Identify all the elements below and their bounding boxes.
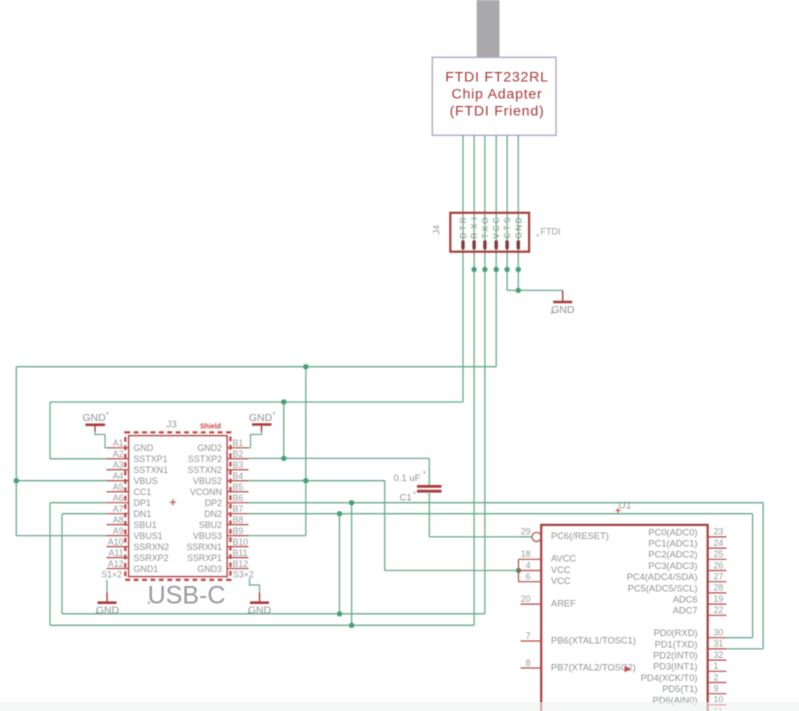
svg-text:B11: B11 bbox=[233, 548, 248, 558]
junction dot TXO net at (339.5,513.7) bbox=[337, 511, 342, 516]
svg-text:A6: A6 bbox=[113, 493, 124, 503]
svg-text:PC6(/RESET): PC6(/RESET) bbox=[551, 531, 609, 541]
svg-text:GND: GND bbox=[96, 604, 120, 616]
U1 pin 4 VCC bbox=[519, 560, 571, 575]
svg-text:PD3(INT1): PD3(INT1) bbox=[653, 662, 697, 672]
svg-text:VCC: VCC bbox=[551, 565, 571, 575]
svg-text:RXI: RXI bbox=[470, 218, 479, 239]
svg-text:A10: A10 bbox=[108, 537, 124, 547]
svg-text:B5: B5 bbox=[233, 482, 244, 492]
U1 origin cursor mark bbox=[625, 666, 632, 672]
svg-text:+: + bbox=[536, 234, 540, 240]
svg-text:SSRXN2: SSRXN2 bbox=[134, 542, 170, 552]
svg-text:7: 7 bbox=[526, 631, 531, 641]
svg-text:+: + bbox=[106, 411, 110, 418]
U1 pin 19 ADC6 bbox=[673, 594, 727, 605]
U1 pin 22 ADC7 bbox=[673, 605, 727, 616]
svg-text:S1×2: S1×2 bbox=[101, 570, 122, 580]
svg-text:PC1(ADC1): PC1(ADC1) bbox=[648, 539, 697, 549]
capacitor C1 0.1 uF bbox=[417, 486, 521, 537]
C1 value label 0.1 uF bbox=[394, 470, 427, 485]
wire GND net: FTDI pin6 down to junction bbox=[517, 135, 519, 290]
svg-text:PD2(INT0): PD2(INT0) bbox=[653, 651, 697, 661]
U1 VCC pin bracket bbox=[518, 559, 520, 581]
svg-text:GND1: GND1 bbox=[134, 564, 159, 574]
U1 pin 24 PC1(ADC1) bbox=[648, 538, 726, 549]
svg-text:PC0(ADC0): PC0(ADC0) bbox=[648, 527, 697, 537]
svg-text:CC1: CC1 bbox=[134, 487, 152, 497]
svg-text:SSRXP2: SSRXP2 bbox=[134, 553, 169, 563]
U1 pin 11 bbox=[708, 706, 727, 711]
U1 pin 10 PD6(AIN0) bbox=[653, 695, 727, 706]
svg-text:U1: U1 bbox=[619, 501, 632, 512]
svg-text:SSRXP1: SSRXP1 bbox=[187, 553, 222, 563]
svg-text:B1: B1 bbox=[233, 438, 244, 448]
USB-C pin B2 (SSTXP2) bbox=[188, 449, 249, 464]
USB-C value label bbox=[147, 582, 226, 610]
svg-text:A11: A11 bbox=[109, 548, 124, 558]
svg-text:24: 24 bbox=[714, 538, 724, 548]
junction dot VBUS net at (305.8,480.7) bbox=[303, 478, 308, 483]
op-amp U1 body (ATmega MCU) bbox=[541, 525, 708, 711]
svg-text:DTR: DTR bbox=[459, 217, 468, 238]
svg-text:+: + bbox=[95, 610, 99, 617]
svg-text:2: 2 bbox=[714, 672, 719, 682]
USB-C origin cross bbox=[170, 499, 176, 505]
svg-text:PC4(ADC4/SDA): PC4(ADC4/SDA) bbox=[627, 572, 698, 582]
svg-text:PD1(TXD): PD1(TXD) bbox=[655, 639, 698, 649]
U1 pin 7 PB6(XTAL1/TOSC1) bbox=[521, 631, 636, 646]
bottom UI band bbox=[0, 702, 799, 711]
svg-text:+: + bbox=[247, 610, 251, 617]
svg-text:C1: C1 bbox=[400, 493, 412, 504]
J4 reference designator bbox=[432, 225, 442, 235]
svg-text:30: 30 bbox=[714, 628, 724, 638]
svg-text:+: + bbox=[413, 490, 417, 497]
svg-text:8: 8 bbox=[526, 658, 531, 668]
svg-text:18: 18 bbox=[521, 549, 531, 559]
USB-C pin A10 (SSRXN2) bbox=[107, 537, 170, 552]
svg-text:A9: A9 bbox=[113, 526, 124, 536]
svg-text:SSTXN1: SSTXN1 bbox=[134, 465, 169, 475]
svg-text:VBUS2: VBUS2 bbox=[193, 476, 222, 486]
U1 pin 31 PD1(TXD) bbox=[655, 639, 727, 650]
svg-text:SSTXP2: SSTXP2 bbox=[188, 454, 222, 464]
junction dot DTR net at (283.8,458.4) bbox=[281, 456, 286, 461]
svg-text:USB-C: USB-C bbox=[148, 582, 226, 610]
USB-C pin B3 (SSTXN2) bbox=[187, 460, 248, 475]
Shield label bbox=[200, 423, 221, 430]
svg-text:28: 28 bbox=[714, 583, 724, 593]
svg-text:ADC7: ADC7 bbox=[673, 606, 698, 616]
svg-text:PD0(RXD): PD0(RXD) bbox=[654, 628, 698, 638]
svg-text:GND: GND bbox=[248, 604, 272, 616]
ground symbol (J4 CTS/GND net) bbox=[550, 290, 575, 317]
ground symbol top-left (A1) bbox=[82, 411, 109, 448]
ground symbol top-right (B1) bbox=[248, 411, 276, 448]
USB-C pin A9 (VBUS1) bbox=[107, 526, 163, 541]
svg-text:FTDI FT232RL: FTDI FT232RL bbox=[445, 70, 549, 86]
ground symbol bottom-left (S1) bbox=[95, 580, 120, 617]
USB-C pin B12 (GND3) bbox=[197, 559, 248, 574]
svg-text:Shield: Shield bbox=[200, 423, 221, 430]
svg-text:S3×2: S3×2 bbox=[233, 570, 254, 580]
wire CTS net: FTDI pin5 down then right to GND symbol bbox=[507, 135, 563, 290]
svg-text:26: 26 bbox=[714, 560, 724, 570]
svg-text:DN2: DN2 bbox=[204, 509, 222, 519]
svg-text:DN1: DN1 bbox=[134, 509, 152, 519]
U1 pin 32 PD2(INT0) bbox=[653, 650, 726, 661]
svg-text:DP2: DP2 bbox=[205, 498, 222, 508]
U1 pin 20 AREF bbox=[521, 594, 577, 609]
wire TXO net: FTDI pin3 down to y=613.8, left to DN1 (A7), branch up to DN2 (B7) row to PD0(RXD) bbox=[62, 135, 753, 638]
svg-text:VBUS1: VBUS1 bbox=[134, 531, 163, 541]
junction dot VBUS net at (305.8,366.7) bbox=[303, 364, 308, 369]
svg-text:VCC: VCC bbox=[551, 576, 571, 586]
USB-C pin B7 (DN2) bbox=[204, 504, 248, 519]
svg-text:6: 6 bbox=[526, 572, 531, 582]
svg-text:PC3(ADC3): PC3(ADC3) bbox=[648, 561, 697, 571]
svg-text:VBUS: VBUS bbox=[134, 476, 158, 486]
U1 pin 23 PC0(ADC0) bbox=[648, 527, 726, 538]
U1 pin 9 PD5(T1) bbox=[662, 684, 726, 695]
junction dot RXI net at (351.6,625.3) bbox=[349, 623, 354, 628]
svg-text:CTS: CTS bbox=[503, 218, 512, 239]
USB-C pin A12 (GND1) bbox=[107, 559, 159, 574]
FTDI value label bbox=[536, 227, 561, 240]
svg-text:GND: GND bbox=[82, 412, 106, 424]
junction dot DTR net at (283.8,402) bbox=[281, 399, 286, 404]
USB-C pin B9 (VBUS3) bbox=[193, 526, 249, 541]
USB-C pin B8 (SBU2) bbox=[199, 515, 249, 530]
svg-text:(FTDI Friend): (FTDI Friend) bbox=[450, 104, 545, 120]
svg-text:B9: B9 bbox=[233, 526, 244, 536]
svg-text:22: 22 bbox=[714, 605, 724, 615]
svg-text:VCONN: VCONN bbox=[190, 487, 222, 497]
svg-text:SBU2: SBU2 bbox=[199, 520, 222, 530]
svg-text:GND2: GND2 bbox=[197, 443, 222, 453]
junction dot GND net at (518.3,290.4) bbox=[516, 288, 521, 293]
svg-text:ADC6: ADC6 bbox=[673, 595, 698, 605]
svg-text:+: + bbox=[423, 470, 427, 477]
svg-text:DP1: DP1 bbox=[134, 498, 151, 508]
USB-C pin B4 (VBUS2) bbox=[193, 471, 249, 486]
svg-text:B10: B10 bbox=[233, 537, 249, 547]
wire VBUS net: FTDI VCC pin4 down, left along y=366.7 to A4/A9, branch to B4/B9 and U1 VCC bbox=[16, 135, 519, 570]
U1 pin 26 PC3(ADC3) bbox=[648, 560, 726, 571]
svg-text:SSTXN2: SSTXN2 bbox=[187, 465, 222, 475]
svg-text:J4: J4 bbox=[432, 225, 442, 235]
svg-text:TXO: TXO bbox=[481, 218, 490, 239]
USB-C pin B1 (GND2) bbox=[197, 438, 248, 453]
USB-C pin A3 (SSTXN1) bbox=[107, 460, 169, 475]
junction dot RXI net at (351.6,502.7) bbox=[349, 500, 354, 505]
svg-text:B4: B4 bbox=[233, 471, 244, 481]
svg-text:32: 32 bbox=[714, 650, 724, 660]
svg-text:A12: A12 bbox=[108, 559, 124, 569]
svg-text:23: 23 bbox=[714, 527, 724, 537]
U1 pin 6 VCC bbox=[519, 572, 571, 587]
svg-text:A4: A4 bbox=[113, 471, 124, 481]
svg-text:A8: A8 bbox=[113, 515, 124, 525]
svg-text:PD4(XCK/T0): PD4(XCK/T0) bbox=[641, 673, 698, 683]
svg-text:Chip Adapter: Chip Adapter bbox=[451, 87, 542, 103]
svg-text:PC5(ADC5/SCL): PC5(ADC5/SCL) bbox=[628, 583, 698, 593]
svg-text:PB7(XTAL2/TOSC2): PB7(XTAL2/TOSC2) bbox=[551, 662, 636, 672]
svg-text:A2: A2 bbox=[113, 449, 124, 459]
svg-text:SBU1: SBU1 bbox=[134, 520, 157, 530]
svg-text:AVCC: AVCC bbox=[551, 554, 576, 564]
svg-text:4: 4 bbox=[526, 560, 531, 570]
svg-text:AREF: AREF bbox=[551, 598, 576, 608]
USB-C pin A8 (SBU1) bbox=[107, 515, 157, 530]
C1 reference label bbox=[400, 490, 417, 504]
wire RXI net: FTDI pin2 down to y=625.3, left to DP1 (A6), branch up to DP2 (B6) row to PD1(TXD) bbox=[50, 135, 763, 649]
U1 pin 18 AVCC bbox=[519, 549, 577, 564]
USB-C pin A7 (DN1) bbox=[107, 504, 152, 519]
svg-text:B2: B2 bbox=[233, 449, 244, 459]
svg-text:SSRXN1: SSRXN1 bbox=[186, 542, 222, 552]
svg-text:A5: A5 bbox=[113, 482, 124, 492]
USB-C shield pin S3x2 bbox=[233, 570, 254, 580]
svg-text:A3: A3 bbox=[113, 460, 124, 470]
svg-text:20: 20 bbox=[521, 594, 531, 604]
svg-text:GND: GND bbox=[551, 304, 575, 316]
svg-text:29: 29 bbox=[521, 527, 531, 537]
USB-C pin A11 (SSRXP2) bbox=[107, 548, 169, 563]
svg-text:+: + bbox=[550, 310, 554, 317]
svg-text:B12: B12 bbox=[233, 559, 249, 569]
svg-text:FTDI: FTDI bbox=[541, 227, 561, 237]
U1 pin 25 PC2(ADC2) bbox=[648, 549, 726, 560]
svg-text:SSTXP1: SSTXP1 bbox=[134, 454, 168, 464]
U1 pin 27 PC4(ADC4/SDA) bbox=[627, 572, 727, 583]
svg-text:31: 31 bbox=[714, 639, 724, 649]
svg-text:VCC: VCC bbox=[492, 217, 501, 238]
J3 reference designator bbox=[166, 419, 177, 430]
U1 pin 2 PD4(XCK/T0) bbox=[641, 672, 727, 683]
svg-text:GND: GND bbox=[249, 412, 273, 424]
svg-text:PC2(ADC2): PC2(ADC2) bbox=[648, 550, 697, 560]
svg-text:9: 9 bbox=[714, 684, 719, 694]
svg-text:0.1 uF: 0.1 uF bbox=[394, 473, 421, 484]
USB-C pin B6 (DP2) bbox=[205, 493, 249, 508]
junction dot VBUS net at U1 VCC pin (518.5,570.5) bbox=[516, 568, 521, 573]
USB-C pin A1 (GND) bbox=[107, 438, 154, 453]
junction dot VBUS net at (16.3,480.7) bbox=[14, 478, 19, 483]
svg-text:19: 19 bbox=[714, 594, 724, 604]
svg-text:VBUS3: VBUS3 bbox=[193, 531, 222, 541]
svg-text:B3: B3 bbox=[233, 460, 244, 470]
svg-text:B7: B7 bbox=[233, 504, 244, 514]
svg-text:27: 27 bbox=[714, 572, 724, 582]
svg-text:B8: B8 bbox=[233, 515, 244, 525]
svg-text:GND: GND bbox=[134, 443, 154, 453]
ground symbol bottom-right (S3) bbox=[247, 578, 272, 617]
USB-C pin A6 (DP1) bbox=[107, 493, 151, 508]
svg-text:A7: A7 bbox=[113, 504, 124, 514]
U1 pin 8 PB7(XTAL2/TOSC2) bbox=[521, 658, 636, 673]
wire DTR net: FTDI pin1 down, left, to USB-C A2/B2 and cap C1 to RESET bbox=[50, 135, 463, 486]
USB-C pin A2 (SSTXP1) bbox=[107, 449, 168, 464]
junction dots at connector J4 pin ends bbox=[471, 267, 521, 272]
junction dot TXO net at (339.5,613.8) bbox=[337, 611, 342, 616]
U1 pin 29 PC6(/RESET) bbox=[521, 527, 609, 542]
USB-C pin B5 (VCONN) bbox=[190, 482, 249, 497]
svg-text:A1: A1 bbox=[113, 438, 124, 448]
U1 reference designator bbox=[616, 501, 632, 514]
svg-text:B6: B6 bbox=[233, 493, 244, 503]
wire RESET net from C1 to pin 29 bbox=[521, 536, 532, 538]
svg-text:1: 1 bbox=[714, 661, 719, 671]
usb cable (gray bar) bbox=[477, 0, 500, 58]
svg-text:+: + bbox=[272, 411, 276, 418]
USB-C pin A4 (VBUS) bbox=[107, 471, 158, 486]
USB-C pin A5 (CC1) bbox=[107, 482, 152, 497]
svg-text:GND: GND bbox=[514, 217, 523, 238]
USB-C pin B10 (SSRXN1) bbox=[186, 537, 248, 552]
USB-C connector J3 outer dashed body bbox=[125, 432, 230, 579]
USB-C pin B11 (SSRXP1) bbox=[187, 548, 249, 563]
svg-text:J3: J3 bbox=[166, 419, 177, 430]
svg-text:PD5(T1): PD5(T1) bbox=[662, 684, 697, 694]
FTDI FT232RL adapter annotation box bbox=[432, 57, 556, 135]
U1 pin 1 PD3(INT1) bbox=[653, 661, 726, 672]
svg-text:25: 25 bbox=[714, 549, 724, 559]
svg-text:PB6(XTAL1/TOSC1): PB6(XTAL1/TOSC1) bbox=[551, 635, 636, 645]
connector J4 (FTDI header) bbox=[450, 213, 529, 252]
U1 pin 30 PD0(RXD) bbox=[654, 628, 727, 639]
USB-C shield pin S1x2 bbox=[101, 570, 122, 580]
svg-text:GND3: GND3 bbox=[197, 564, 222, 574]
svg-text:+: + bbox=[147, 599, 152, 608]
U1 pin 28 PC5(ADC5/SCL) bbox=[628, 583, 727, 594]
